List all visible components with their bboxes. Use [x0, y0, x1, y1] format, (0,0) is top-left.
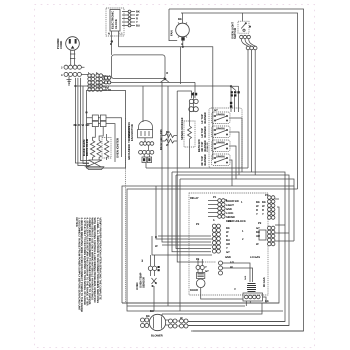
wire spark branches: [231, 86, 239, 90]
svg-text:NOTES:: NOTES:: [75, 218, 78, 228]
svg-text:SPARK: SPARK: [216, 114, 225, 117]
svg-text:SPARK: SPARK: [216, 156, 225, 159]
main L1 bus: [119, 47, 213, 160]
svg-text:Y: Y: [262, 213, 264, 216]
svg-text:BU: BU: [136, 25, 140, 28]
strip C: [212, 224, 220, 253]
wire sensor drop: [153, 286, 155, 311]
strip A: [218, 199, 225, 219]
wire S3 output: [229, 146, 236, 179]
svg-text:BURNER: BURNER: [204, 112, 207, 123]
svg-text:CABINET MUST BE GROUNDED TO RA: CABINET MUST BE GROUNDED TO RANGE FRAME …: [88, 218, 91, 305]
svg-text:BURNER: BURNER: [204, 126, 207, 137]
svg-text:SENSE: SENSE: [226, 216, 235, 219]
wire feed P2-3: [158, 235, 211, 237]
wire clock L1 stub: [118, 31, 120, 47]
wire feed P2-4: [156, 186, 212, 239]
control board dashed box: [189, 193, 268, 295]
electronic clock box: [106, 8, 124, 36]
svg-text:LIGHT: LIGHT: [226, 204, 234, 207]
terminal row 2: [61, 72, 81, 76]
ground symbol: [67, 77, 72, 85]
svg-text:WITH SERVICING CONTROLS AND WI: WITH SERVICING CONTROLS AND WIRING PROBL…: [93, 218, 96, 303]
broil element: [97, 141, 101, 161]
wire outer loop L1: [169, 9, 304, 331]
wire color labels column: [103, 75, 112, 92]
svg-text:BK: BK: [166, 131, 170, 134]
svg-text:OR: OR: [226, 243, 230, 246]
wire label row: [74, 124, 90, 127]
svg-text:GY: GY: [205, 270, 209, 273]
wire sensor leads: [151, 271, 155, 277]
svg-text:GND: GND: [226, 208, 232, 211]
bake element: [90, 141, 94, 161]
wire valve strip pins: [246, 297, 266, 306]
svg-text:BK: BK: [262, 201, 266, 204]
svg-text:SENSOR: SENSOR: [143, 277, 146, 288]
big oven box: [87, 91, 126, 169]
svg-text:BROIL ELEM: BROIL ELEM: [85, 138, 89, 156]
oven fan motor top: [170, 23, 190, 41]
wire igniter feed: [177, 91, 191, 98]
svg-text:BK: BK: [146, 315, 150, 318]
wire long drop to P3: [177, 91, 203, 262]
wire terminal links: [81, 67, 88, 77]
node spark module output: [164, 78, 167, 81]
svg-text:SPARK: SPARK: [216, 142, 225, 145]
wire P9 pin 1: [275, 224, 285, 226]
svg-text:BU: BU: [226, 239, 230, 242]
svg-text:LO GAS: LO GAS: [250, 256, 260, 259]
svg-text:P4: P4: [265, 194, 269, 197]
svg-text:BK/W GROUND: BK/W GROUND: [159, 129, 163, 150]
svg-text:2. BEFORE REMOVING WIRE COVER: 2. BEFORE REMOVING WIRE COVER DISCONNECT…: [80, 218, 83, 313]
strip D: [268, 226, 275, 246]
bottom motor: [149, 314, 165, 330]
motor connectors right: [169, 319, 189, 328]
chassis dashed line: [125, 118, 127, 303]
svg-text:DOOR SW: DOOR SW: [226, 200, 239, 203]
svg-text:LO: LO: [230, 261, 234, 264]
wire switch feeders: [231, 86, 239, 112]
wire neutral bus: [75, 85, 231, 87]
svg-text:CORD: CORD: [59, 41, 63, 49]
svg-text:BU: BU: [256, 231, 260, 234]
wire feed P2-1: [172, 172, 211, 252]
wire loop B: [127, 189, 298, 311]
wire P9 pin 3: [275, 240, 294, 242]
wire gas valve hi: [223, 263, 251, 282]
oven light connector: [240, 35, 257, 50]
svg-text:4. SERVICER PLEASE RETURN THIS: 4. SERVICER PLEASE RETURN THIS DIAGRAM T…: [85, 218, 88, 306]
wire P4 riser: [293, 186, 295, 241]
svg-text:SPARK MODULE: SPARK MODULE: [180, 117, 184, 140]
svg-text:BURNER: BURNER: [204, 154, 207, 165]
valve terminal strip: [243, 293, 263, 301]
strip B: [268, 196, 275, 220]
svg-text:Y: Y: [205, 266, 207, 269]
svg-text:WHEN SERVICE USE ONLY WIRING M: WHEN SERVICE USE ONLY WIRING MATERIALS H…: [91, 218, 94, 301]
wire dashed stub P3: [203, 261, 216, 263]
wire solenoid to valve strip: [201, 288, 243, 299]
node fan junction: [182, 46, 184, 48]
svg-text:FAN: FAN: [170, 30, 174, 36]
svg-text:OR: OR: [86, 124, 90, 127]
wire to spark module box: [111, 44, 113, 55]
wire feed P2-6: [162, 244, 212, 246]
svg-text:SWITCH: SWITCH: [233, 28, 237, 39]
wire bottom bus 1: [122, 302, 279, 304]
wire fan bottom lead: [182, 41, 184, 47]
svg-text:1. DISCONNECT RANGE FROM POWER: 1. DISCONNECT RANGE FROM POWER SUPPLY BE…: [78, 218, 81, 311]
wire S2 output: [229, 132, 239, 175]
wire fan branch: [169, 9, 177, 41]
svg-text:R: R: [226, 235, 228, 238]
gas valve coil: [197, 273, 205, 279]
wire drop BK: [75, 78, 89, 163]
motor connectors left: [141, 318, 149, 328]
svg-text:CLOCK: CLOCK: [114, 19, 118, 29]
relay: [259, 230, 266, 240]
wire drop to bottom bus: [179, 179, 181, 311]
wire gas valve return: [127, 305, 245, 307]
extra tiny labels: [105, 18, 269, 320]
svg-text:GY: GY: [214, 109, 218, 112]
svg-text:BK: BK: [265, 300, 269, 303]
resistor R4: [162, 134, 177, 138]
wire L1 bus to igniter: [103, 81, 195, 83]
element terminal bar: [85, 160, 104, 170]
gas valve solenoid body: [196, 279, 205, 288]
wire light switch leads: [241, 39, 255, 46]
svg-text:VERIFY PROPER OPERATION AFTER: VERIFY PROPER OPERATION AFTER SERVICING …: [98, 218, 101, 300]
svg-text:LOCK: LOCK: [226, 212, 234, 215]
svg-text:BK: BK: [226, 227, 230, 230]
svg-text:BK: BK: [74, 124, 78, 127]
wire ground lead: [68, 84, 70, 86]
resistor R5: [162, 139, 177, 143]
svg-text:BK: BK: [256, 201, 260, 204]
wire to spark module: [103, 77, 112, 79]
wire to board P2: [162, 82, 211, 242]
wire clock N stub: [111, 31, 113, 44]
wire drop W and OR: [81, 78, 90, 164]
page border dotted: [35, 5, 315, 348]
node fuse tap: [85, 111, 87, 113]
svg-text:P3: P3: [196, 258, 200, 261]
wire drop R: [78, 78, 90, 166]
wire switch input stubs: [213, 116, 214, 158]
door sensor cluster: [139, 266, 159, 288]
clock pins: [122, 10, 140, 28]
connector strip P1 right: [96, 72, 103, 91]
gas valve area: [247, 284, 256, 292]
svg-text:P2: P2: [196, 223, 200, 226]
wire light sw 1: [146, 50, 248, 168]
gas valve solenoid connector: [196, 266, 200, 270]
node N junction: [111, 40, 113, 42]
svg-text:V: V: [234, 288, 236, 291]
wire drop to igniter box: [180, 47, 182, 84]
wire inner loop N: [181, 13, 298, 189]
wire bottom bus 2: [193, 330, 304, 332]
wire feed P2-5: [152, 236, 212, 255]
svg-text:HI: HI: [230, 266, 233, 269]
svg-text:GY: GY: [256, 227, 260, 230]
svg-text:5. LABEL ALL WIRES PRIOR TO DI: 5. LABEL ALL WIRES PRIOR TO DISCONNECTIO…: [96, 218, 99, 304]
wire S4 output: [229, 160, 232, 186]
wire bottom bus 3: [162, 303, 262, 314]
wire igniter top lead: [194, 82, 196, 98]
wire gas valve lo: [223, 268, 253, 282]
svg-text:N: N: [108, 33, 110, 36]
wire feed P2-2: [176, 175, 211, 249]
wire fan connector drop: [145, 163, 147, 169]
inline connector pair: [104, 76, 110, 84]
svg-text:OVEN: OVEN: [136, 282, 139, 290]
svg-text:HI GAS: HI GAS: [262, 277, 266, 287]
svg-text:GY BU OR: GY BU OR: [206, 142, 209, 152]
wire loop A: [122, 179, 294, 303]
svg-text:BK: BK: [150, 310, 154, 313]
wire light sw 3: [176, 50, 289, 326]
strip A wires: [208, 201, 218, 217]
svg-text:R: R: [166, 72, 168, 75]
igniter circles: [189, 92, 199, 112]
svg-text:OR: OR: [256, 235, 260, 238]
svg-text:P9: P9: [258, 222, 262, 225]
wire motor bus pair: [188, 322, 289, 326]
power cord plug: [66, 37, 80, 51]
svg-text:GAS: GAS: [244, 275, 247, 280]
wire motor connector links: [166, 320, 180, 326]
wire sensor risers: [151, 255, 155, 266]
wire S1 output: [229, 118, 242, 172]
svg-text:Y: Y: [226, 247, 228, 250]
svg-text:FAN MOTOR: FAN MOTOR: [130, 124, 134, 141]
node neutral junction: [74, 85, 76, 87]
svg-text:R: R: [256, 209, 258, 212]
svg-text:SPARK: SPARK: [216, 128, 225, 131]
svg-text:DOOR: DOOR: [190, 289, 198, 292]
svg-text:R: R: [155, 236, 157, 239]
node spark bus junction: [230, 85, 232, 87]
third element dashed: [102, 138, 111, 159]
wire loop C: [122, 207, 279, 303]
svg-text:Y: Y: [256, 213, 258, 216]
burner switches: [201, 108, 242, 168]
power cord lines: [71, 50, 75, 65]
svg-text:3. STYLE ONLY TO FEATURES EQUI: 3. STYLE ONLY TO FEATURES EQUIPPED ON TH…: [83, 218, 86, 306]
cord clamp marks: [70, 54, 75, 59]
svg-text:BK: BK: [178, 18, 182, 21]
convection fan connector: [139, 138, 154, 163]
terminal row 1: [61, 65, 81, 69]
strip E: [219, 261, 223, 275]
wire P4 pin 1: [275, 198, 279, 200]
notes block rotated: [75, 218, 101, 313]
svg-text:GND: GND: [225, 256, 231, 259]
wire fan top lead: [182, 13, 184, 23]
svg-text:GY: GY: [226, 251, 230, 254]
spark module box: [112, 55, 166, 79]
wire long neutral drop: [167, 86, 169, 306]
svg-text:R: R: [78, 124, 80, 127]
wire fuse row 2: [87, 124, 116, 162]
connector strip P1 left: [88, 72, 95, 91]
svg-text:E: E: [110, 43, 112, 46]
fuse links: [92, 115, 98, 121]
wire motor top lead: [161, 314, 163, 318]
svg-text:TR: TR: [105, 87, 109, 90]
svg-text:BK/W R/W: BK/W R/W: [198, 139, 201, 152]
svg-text:RELAY: RELAY: [190, 197, 199, 200]
svg-text:P6: P6: [228, 220, 232, 223]
convection fan: [127, 86, 152, 141]
wire P9 pin 2: [275, 232, 289, 234]
svg-text:R: R: [262, 209, 264, 212]
svg-text:P1: P1: [213, 196, 217, 199]
svg-text:BLOWER: BLOWER: [151, 335, 163, 338]
oven light switch: [230, 13, 251, 39]
wire light sw 2: [172, 50, 285, 322]
wire fuse row 1: [87, 118, 122, 157]
wire Y split: [160, 79, 169, 83]
wire element feeds: [93, 127, 107, 141]
svg-text:OVEN IGNITER: OVEN IGNITER: [116, 138, 120, 158]
